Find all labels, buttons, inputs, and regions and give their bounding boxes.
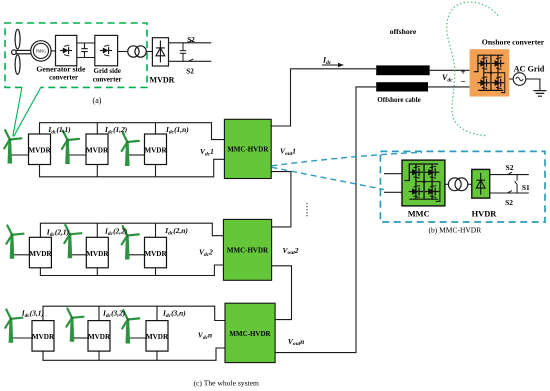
MVDR box (3,n)	[146, 321, 169, 352]
dashed enclosure (a)	[5, 23, 147, 87]
MVDR box (1,1)	[28, 134, 51, 165]
continuation dots	[306, 203, 308, 218]
svg-text:S2: S2	[187, 36, 195, 44]
wire transformer to HVDR	[468, 183, 472, 185]
transformer (b)	[448, 178, 461, 191]
svg-text:S2: S2	[506, 163, 514, 172]
row2 bottom stub unit3	[155, 268, 157, 276]
svg-text:Idc(1,1): Idc(1,1)	[47, 125, 70, 135]
row1 top stub unit3	[155, 123, 157, 134]
svg-text:MMC: MMC	[408, 210, 430, 219]
wind turbine (1,2)	[62, 131, 79, 164]
wire turbine(2,n) to MVDR	[129, 254, 145, 256]
onshore converter box	[470, 49, 510, 96]
svg-text:(a): (a)	[93, 96, 102, 105]
generator side converter U1	[56, 35, 77, 65]
svg-text:Grid side: Grid side	[94, 67, 121, 75]
MVDR box (1,n)	[144, 134, 167, 165]
row2 top bus	[40, 223, 223, 237]
wire turbine(2,2) to MVDR	[72, 254, 87, 256]
svg-text:Idc(3,n): Idc(3,n)	[162, 309, 186, 319]
wind turbine (3,n)	[122, 310, 139, 343]
wire top conductor to onshore converter	[430, 69, 470, 71]
svg-text:(b) MMC-HVDR: (b) MMC-HVDR	[429, 226, 482, 235]
svg-text:MMC-HVDR: MMC-HVDR	[229, 330, 271, 338]
row3 bottom stub unit2	[98, 351, 100, 360]
wire Vout1 negative to Vout2 positive	[271, 172, 291, 227]
svg-text:Idc(1,n): Idc(1,n)	[165, 125, 189, 135]
wire turbine(2,1) to MVDR	[14, 254, 30, 256]
svg-text:AC Grid: AC Grid	[514, 65, 545, 74]
row3 top bus	[43, 306, 225, 320]
dashed enclosure (b)	[380, 151, 545, 222]
svg-text:Onshore converter: Onshore converter	[482, 38, 545, 47]
wire bottom conductor to onshore converter	[428, 86, 470, 88]
svg-text:offshore: offshore	[390, 27, 417, 36]
wire turbine(3,2) to MVDR	[74, 337, 89, 339]
svg-text:+: +	[461, 67, 466, 77]
MVDR box (1,2)	[86, 134, 109, 165]
svg-text:converter: converter	[49, 74, 79, 82]
switch S2 bottom (a)	[188, 59, 193, 61]
row3 bottom stub unit3	[156, 351, 158, 360]
MVDR box (2,2)	[86, 237, 109, 267]
row3 bottom bus	[43, 348, 225, 360]
wire HVDR output top	[490, 174, 529, 176]
dc link capacitor	[81, 43, 87, 58]
callout dashed line upper	[272, 152, 423, 165]
svg-text:S2: S2	[186, 67, 194, 75]
HVDR box	[472, 169, 490, 198]
MMC-HVDR converter 1	[224, 119, 271, 178]
wire turbine(1,2) to MVDR	[69, 154, 86, 156]
row1 bottom bus	[40, 159, 225, 177]
wire converter to AC source	[509, 78, 513, 80]
row1 top bus	[40, 123, 225, 140]
svg-text:S2: S2	[505, 198, 513, 207]
wire return conductor to series string	[275, 87, 376, 353]
svg-text:HVDR: HVDR	[472, 210, 498, 219]
wind turbine (3,2)	[66, 309, 83, 342]
wire input top to MMC	[384, 173, 402, 175]
switch S2 top (a)	[187, 40, 192, 43]
wire generator to converter	[51, 50, 55, 52]
AC source G1	[513, 73, 526, 86]
MVDR box (2,n)	[144, 237, 167, 267]
svg-text:Generator side: Generator side	[36, 65, 85, 73]
row3 top stub unit2	[98, 306, 100, 320]
wire turbine(1,1) to MVDR	[12, 154, 29, 156]
wire turbine(1,n) to MVDR	[129, 154, 145, 156]
row1 top stub unit2	[96, 123, 98, 134]
wire converter to transformer	[118, 51, 129, 53]
filter capacitor C1	[180, 43, 186, 62]
wire AC source to ground	[526, 79, 540, 91]
wire turbine(3,n) to MVDR	[130, 337, 147, 339]
wind turbine (a)	[12, 29, 32, 74]
row1 bottom stub unit3	[155, 165, 157, 177]
MVDR box (3,2)	[88, 321, 111, 352]
row2 top stub unit3	[155, 223, 157, 237]
offshore cable bottom conductor	[376, 82, 428, 91]
wind turbine (1,n)	[122, 133, 139, 166]
MMC-HVDR converter n	[225, 303, 275, 362]
callout tail from (a) to first turbine	[13, 86, 41, 137]
wire input bottom to MMC	[384, 191, 402, 193]
MVDR box (a)	[152, 38, 168, 66]
row2 bottom bus	[40, 265, 223, 276]
dotted green boundary curve	[447, 2, 498, 136]
svg-text:−: −	[461, 77, 466, 87]
svg-text:(c) The whole system: (c) The whole system	[194, 379, 260, 388]
row2 top stub unit2	[96, 223, 98, 237]
grid side converter U2	[95, 35, 118, 65]
svg-text:Idc(3,1): Idc(3,1)	[21, 309, 44, 319]
wind turbine (2,2)	[64, 225, 81, 258]
offshore cable top conductor	[376, 65, 430, 75]
MMC-HVDR converter 2	[223, 219, 271, 280]
wind turbine (3,1)	[5, 310, 22, 343]
switch S2 top (b)	[508, 172, 513, 174]
svg-text:converter: converter	[93, 75, 123, 83]
switch S1 vertical	[515, 175, 518, 193]
MVDR box (3,1)	[32, 321, 55, 352]
svg-text:Idc(1,2): Idc(1,2)	[104, 125, 127, 135]
callout dashed line lower	[272, 167, 385, 189]
wind turbine (2,n)	[122, 226, 139, 259]
transformer T1	[128, 46, 139, 57]
wind turbine (1,1)	[4, 130, 21, 163]
generator PMSG	[31, 41, 51, 61]
svg-text:Idc(3,2): Idc(3,2)	[102, 309, 125, 319]
wire MMC to transformer	[445, 183, 449, 185]
svg-text:Offshore cable: Offshore cable	[377, 95, 421, 104]
row2 bottom stub unit2	[96, 268, 98, 276]
wire transformer to MVDR	[146, 51, 152, 53]
svg-text:MMC-HVDR: MMC-HVDR	[227, 146, 269, 154]
svg-text:S1: S1	[522, 183, 530, 192]
svg-text:Idc(2,1): Idc(2,1)	[46, 228, 69, 238]
MVDR box (2,1)	[29, 237, 52, 267]
wire HVDR output bottom	[490, 192, 529, 194]
row1 bottom stub unit2	[96, 165, 98, 177]
svg-text:PMSG: PMSG	[36, 50, 46, 54]
MVDR output wires	[169, 43, 212, 62]
switch S2 bottom (b)	[508, 191, 513, 193]
wire Vout1 positive to offshore cable	[271, 69, 376, 126]
dc link wires	[77, 43, 95, 58]
wind turbine (2,1)	[6, 226, 23, 259]
wire turbine(3,1) to MVDR	[13, 337, 33, 339]
ground	[533, 91, 546, 97]
MMC box	[402, 160, 445, 206]
svg-text:Idc(2,n): Idc(2,n)	[164, 226, 188, 236]
wire Vout2 negative to Voutn positive	[272, 266, 292, 320]
svg-text:MMC-HVDR: MMC-HVDR	[227, 247, 269, 255]
row3 top stub unit3	[156, 306, 158, 320]
svg-text:MVDR: MVDR	[150, 76, 175, 85]
svg-text:Idc(2,2): Idc(2,2)	[104, 227, 127, 237]
